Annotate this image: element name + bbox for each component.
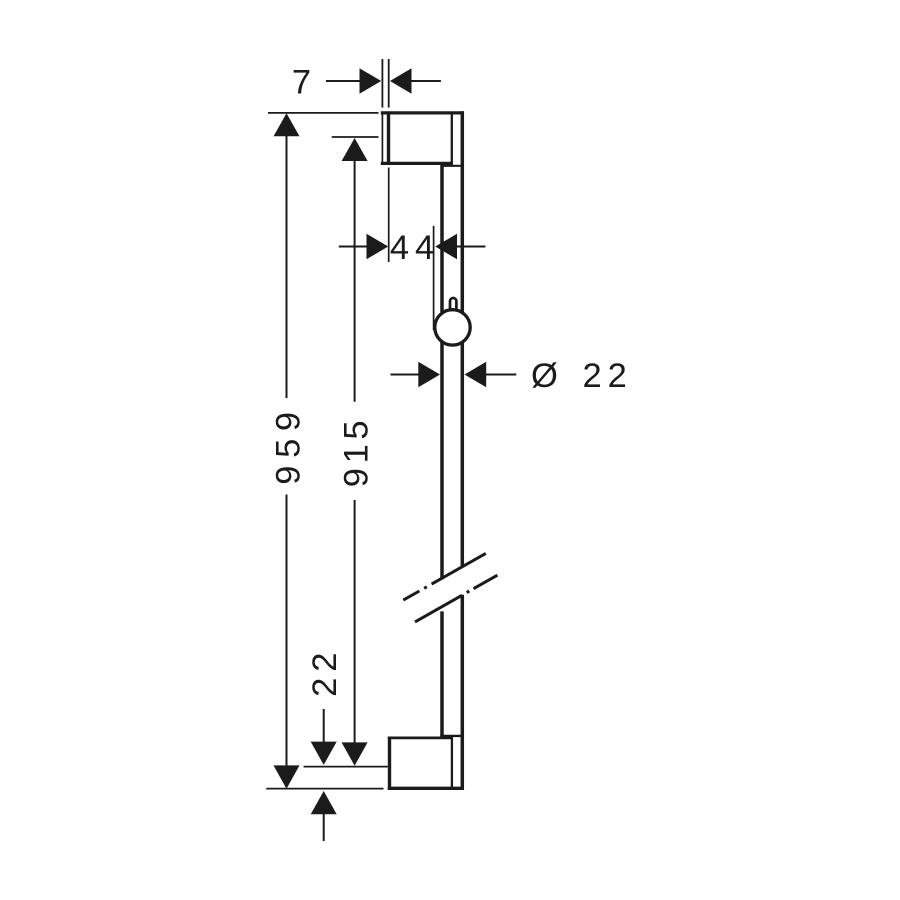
dimension 959: vertical dim line upper segment bbox=[286, 131, 288, 398]
dimension 22: up arrow bbox=[311, 791, 337, 814]
top wall bracket: wall plate thin line bbox=[381, 112, 383, 165]
shower bar: bottom end cap line above bracket bbox=[440, 735, 464, 737]
slider ball bbox=[435, 310, 470, 345]
dimension 7: extension line right (bracket face) bbox=[388, 59, 390, 108]
svg-text:22: 22 bbox=[583, 357, 633, 395]
dimension 7: dim line right segment bbox=[409, 80, 441, 82]
dimension 44: right extension line bbox=[433, 226, 435, 330]
dimension Ø22: left arrow bbox=[418, 362, 440, 388]
shower bar: left outline upper segment bbox=[440, 163, 444, 580]
dimension 959: vertical dim line lower segment bbox=[286, 495, 288, 771]
svg-text:959: 959 bbox=[270, 404, 308, 484]
dimension 959: top arrow bbox=[274, 113, 300, 136]
shower bar: left outline lower segment bbox=[440, 611, 444, 737]
top wall bracket: top edge bbox=[381, 111, 464, 114]
bottom wall bracket: bottom edge bbox=[388, 787, 464, 790]
svg-text:Ø: Ø bbox=[531, 357, 558, 395]
break symbol: lower diagonal long dash bbox=[415, 595, 462, 622]
break symbol: lower diagonal dot bbox=[467, 591, 470, 593]
break symbol: lower diagonal dash bbox=[474, 575, 498, 589]
dimension 7: extension line left (wall plate front) bbox=[381, 59, 383, 108]
dimension 959: bottom arrow bbox=[274, 765, 300, 788]
bottom wall bracket: top edge bbox=[388, 737, 453, 740]
slider pin (stem on top of slider ball) bbox=[450, 298, 456, 313]
bottom wall bracket: left edge bbox=[388, 737, 391, 790]
dimension 915: bottom arrow bbox=[342, 742, 368, 765]
bottom wall bracket: inner vertical line bbox=[451, 737, 453, 788]
dimension 7: dim line left segment bbox=[326, 80, 362, 82]
dimension 915: vertical dim line lower segment bbox=[354, 500, 356, 748]
top wall bracket: left thick edge bbox=[387, 112, 390, 165]
dimension 44: left arrow bbox=[367, 234, 389, 260]
dimension 44: left extension line bbox=[388, 168, 390, 263]
top wall bracket: inner vertical line bbox=[451, 112, 453, 163]
break symbol: upper diagonal long dash bbox=[432, 553, 486, 584]
dimension 7: right arrow bbox=[390, 68, 412, 94]
svg-text:915: 915 bbox=[337, 416, 375, 487]
dimension 915: top arrow bbox=[342, 138, 368, 161]
dimension 22: lower leader line bbox=[323, 812, 325, 841]
dimension Ø22: right arrow bbox=[465, 362, 487, 388]
dimension 44: right arrow bbox=[435, 234, 457, 260]
dimension 44: dim line left segment bbox=[339, 246, 370, 248]
shower bar: right outline lower segment bbox=[461, 595, 465, 790]
svg-text:44: 44 bbox=[390, 229, 440, 267]
dimension 44: dim line right segment bbox=[455, 246, 486, 248]
bottom extension line B (959 end, 22 bottom) bbox=[266, 788, 383, 790]
svg-text:22: 22 bbox=[306, 647, 344, 697]
dimension Ø22: dim line right segment bbox=[484, 374, 516, 376]
dimension Ø22: dim line left segment bbox=[391, 374, 422, 376]
top wall bracket: bottom edge bbox=[381, 162, 453, 165]
dimension 22: upper leader line bbox=[323, 709, 325, 746]
bottom extension line A (915 end, 22 top) bbox=[304, 766, 388, 768]
shower bar: top end cap line under bracket bbox=[441, 165, 464, 167]
dimension 915: top extension line bbox=[332, 136, 379, 138]
svg-text:7: 7 bbox=[292, 64, 311, 102]
shower bar: right outline upper segment bbox=[461, 111, 465, 566]
dimension 915: vertical dim line upper segment bbox=[354, 156, 356, 402]
dimension 7: left arrow bbox=[360, 68, 382, 94]
dimension 959: top extension line bbox=[268, 112, 379, 114]
break symbol: upper diagonal dot bbox=[424, 587, 427, 589]
dimension 22: down arrow bbox=[311, 742, 337, 765]
break symbol: upper diagonal dash bbox=[403, 591, 419, 600]
